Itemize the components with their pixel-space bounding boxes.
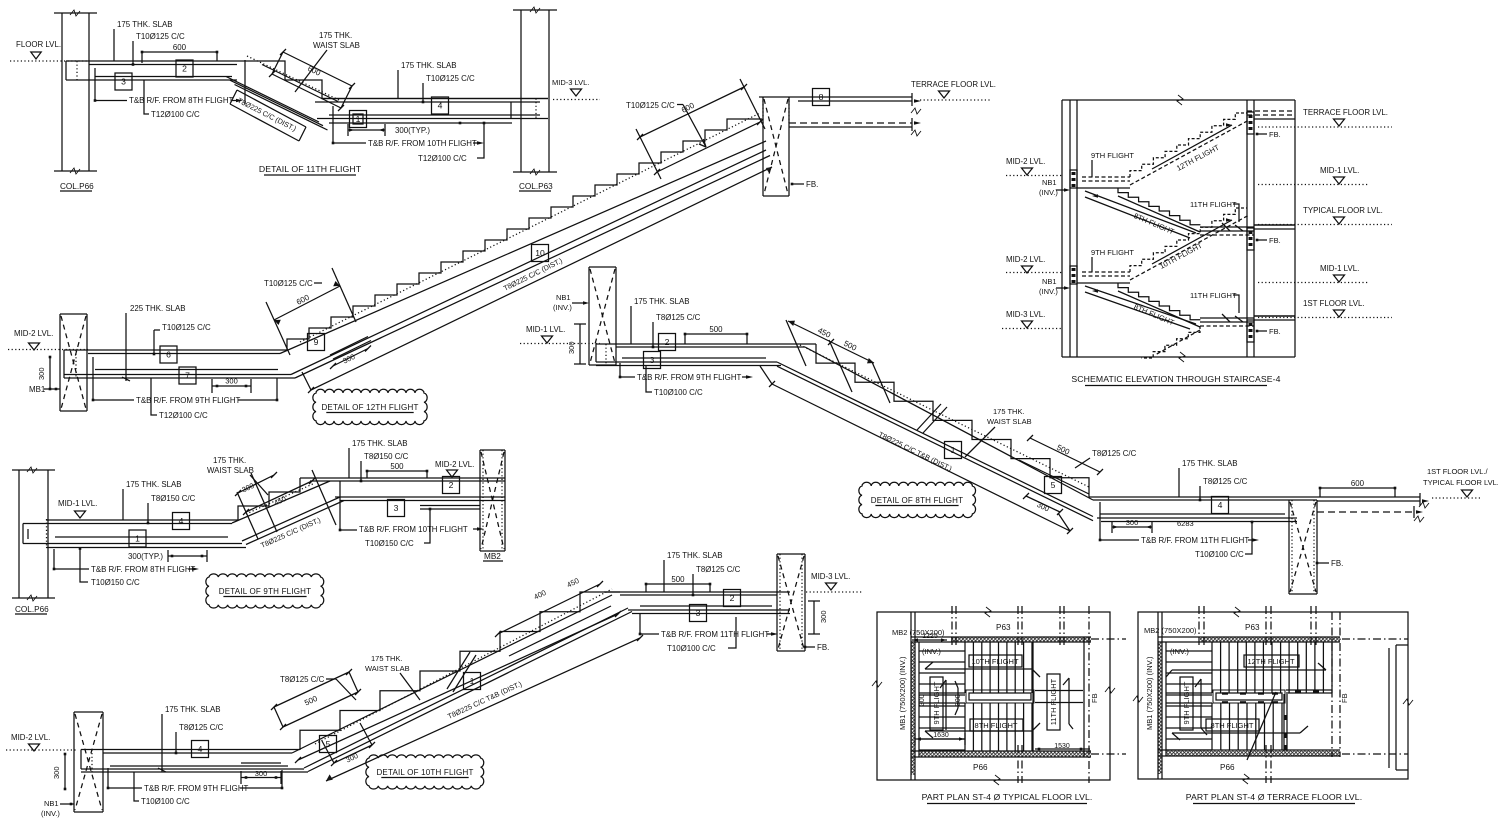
svg-text:T8Ø125 C/C: T8Ø125 C/C (1203, 477, 1248, 486)
label T8@125 C/C (8th) (652, 313, 701, 348)
svg-text:225 THK. SLAB: 225 THK. SLAB (130, 304, 186, 313)
label 12TH FLIGHT boxed (1244, 655, 1299, 667)
svg-text:MID-2 LVL.: MID-2 LVL. (11, 733, 50, 742)
svg-text:FLOOR LVL.: FLOOR LVL. (16, 40, 61, 49)
level MID-3 LVL. left (elevation) (1002, 310, 1062, 329)
bar mark box 3 (115, 73, 132, 90)
svg-text:WAIST SLAB: WAIST SLAB (313, 41, 360, 50)
part plan bottom wall band with hatch (911, 751, 1091, 775)
label 175 THK. SLAB with leader (114, 20, 173, 61)
part plan flight treads upper (965, 642, 1032, 693)
svg-text:DETAIL OF 11TH FLIGHT: DETAIL OF 11TH FLIGHT (259, 164, 362, 174)
part plan left flight treads (1166, 651, 1212, 750)
lower landing slab 8th flight (1089, 497, 1420, 522)
part plan top wall band with hatch (1158, 637, 1340, 642)
label MB2 (750X200) terrace (1144, 626, 1197, 635)
svg-text:175 THK. SLAB: 175 THK. SLAB (126, 480, 182, 489)
rotated dim 450 (9th diag) (243, 470, 336, 525)
svg-text:300: 300 (37, 367, 46, 380)
svg-text:2: 2 (665, 337, 670, 347)
svg-text:175 THK. SLAB: 175 THK. SLAB (401, 61, 457, 70)
label T8@125 C/C (10th) (175, 723, 224, 754)
level marker FLOOR LVL. (10, 40, 89, 61)
stair steps 10th flight (300, 592, 620, 750)
label T&B R/F. FROM 8TH FLIGHT (94, 68, 243, 105)
svg-text:300: 300 (255, 769, 268, 778)
svg-text:T&B R/F. FROM 11TH FLIGHT: T&B R/F. FROM 11TH FLIGHT (661, 630, 769, 639)
svg-text:8TH FLIGHT: 8TH FLIGHT (1211, 721, 1254, 730)
svg-text:T12Ø100 C/C: T12Ø100 C/C (151, 110, 200, 119)
waist slab diagonal 10th flight (292, 589, 632, 772)
rotated label T8@225 C/C (DIST.) 11th (236, 96, 298, 133)
stair steps 9th flight (238, 478, 300, 520)
svg-text:175 THK. SLAB: 175 THK. SLAB (352, 439, 408, 448)
label T12@100 C/C (12th) (151, 378, 208, 420)
svg-text:DETAIL OF 12TH FLIGHT: DETAIL OF 12TH FLIGHT (321, 403, 418, 412)
part plan central landing strip (1213, 690, 1285, 703)
label T10@150 C/C (9th) (79, 547, 140, 587)
svg-text:T&B R/F. FROM 8TH FLIGHT: T&B R/F. FROM 8TH FLIGHT (91, 565, 196, 574)
bar mark box 1 (8th) (945, 442, 962, 459)
label T10@125 C/C with leader (132, 32, 185, 66)
label T10@125 C/C (12th top) (626, 101, 706, 147)
svg-text:6: 6 (166, 350, 171, 360)
part plan left wall hatch (912, 642, 915, 757)
svg-text:T8Ø125 C/C: T8Ø125 C/C (179, 723, 224, 732)
rotated dims 400 450 (10th top) (495, 576, 611, 656)
level MID-1 LVL. upper (elevation) (1258, 166, 1368, 185)
svg-text:COL.P66: COL.P66 (15, 605, 49, 614)
svg-text:175 THK.: 175 THK. (993, 407, 1025, 416)
landing slab 12th flight (64, 350, 295, 378)
label MB2 (750X200) typical (892, 628, 945, 637)
svg-text:7: 7 (185, 371, 190, 381)
bar mark box 3 (10th) (690, 605, 707, 622)
svg-text:WAIST SLAB: WAIST SLAB (987, 417, 1032, 426)
label 8TH FLIGHT boxed typical (970, 719, 1023, 731)
svg-text:MID-2 LVL.: MID-2 LVL. (14, 329, 53, 338)
svg-text:MB1 (750X200) (INV.): MB1 (750X200) (INV.) (1145, 656, 1154, 730)
label T8@125 C/C (8th mid) (1075, 449, 1137, 468)
waist slab diagonal 12th flight (280, 113, 770, 378)
label 175 THK. SLAB (right) (398, 61, 457, 99)
bar mark box 3 (8th) (644, 352, 661, 369)
label T&B R/F. FROM 9TH FLIGHT (12th) (92, 357, 279, 405)
svg-text:9TH FLIGHT: 9TH FLIGHT (1182, 681, 1191, 724)
svg-text:9TH FLIGHT: 9TH FLIGHT (1091, 248, 1134, 257)
dim 1530 typical (1035, 743, 1090, 750)
svg-text:WAIST SLAB: WAIST SLAB (207, 466, 254, 475)
dim 500 (9th upper) (366, 462, 429, 478)
svg-text:300: 300 (52, 766, 61, 779)
label 175 THK. SLAB (9th) (123, 480, 182, 520)
title cloud DETAIL OF 12TH FLIGHT (313, 389, 427, 424)
svg-text:T8Ø125 C/C: T8Ø125 C/C (696, 565, 741, 574)
part plan mid landing edges (919, 693, 965, 703)
bar mark box 5 (8th) (1045, 477, 1062, 494)
svg-text:MID-3 LVL.: MID-3 LVL. (1006, 310, 1045, 319)
level 1ST FLOOR LVL. (elevation) (1258, 299, 1392, 318)
label T&B R/F. FROM 10TH FLIGHT (332, 106, 484, 148)
svg-text:1ST FLOOR LVL./: 1ST FLOOR LVL./ (1427, 467, 1488, 476)
rotated dim 500 (8th right) (1019, 435, 1103, 494)
svg-text:1: 1 (951, 445, 956, 455)
label 175 THK. SLAB (10th right) (664, 551, 723, 592)
dim 300 right (10th) (808, 601, 828, 634)
long dist dim line 12th flight (302, 167, 772, 393)
svg-text:MID-1 LVL.: MID-1 LVL. (1320, 264, 1359, 273)
level marker 1ST FLOOR LVL / TYPICAL FLOOR LVL (1423, 467, 1498, 498)
bar mark box 6 (160, 346, 177, 363)
label T10@100 C/C (10th) (134, 772, 190, 806)
svg-text:MID-1 LVL.: MID-1 LVL. (1320, 166, 1359, 175)
svg-text:9TH FLIGHT: 9TH FLIGHT (1091, 151, 1134, 160)
label T10@125 C/C (right) (422, 74, 475, 103)
rotated label T8@225 C/C (DIST.) 9th (259, 515, 322, 550)
bar mark box 7 (179, 367, 196, 384)
svg-text:T8Ø150 C/C: T8Ø150 C/C (151, 494, 196, 503)
terrace landing slab (elevation) (1247, 111, 1295, 119)
svg-text:1225: 1225 (922, 633, 938, 640)
label FB. (8th) (1316, 559, 1344, 568)
terrace plan FB wall (1332, 612, 1340, 757)
svg-text:4: 4 (438, 101, 443, 111)
dim 300 (12th landing) (212, 377, 251, 394)
svg-text:3: 3 (121, 77, 126, 87)
svg-text:T&B R/F. FROM 9TH FLIGHT: T&B R/F. FROM 9TH FLIGHT (637, 373, 742, 382)
NB1 beam marks left wall (1070, 170, 1077, 284)
svg-text:8: 8 (819, 92, 824, 102)
rotated dim 300 (8th diag) (1023, 493, 1063, 515)
flight direction arrows typical (925, 662, 1073, 738)
terrace landing slab (12th flight) (759, 93, 921, 136)
bar mark box 4 (9th) (173, 513, 190, 530)
svg-text:MID-1 LVL.: MID-1 LVL. (526, 325, 565, 334)
label T&B R/F. FROM 10TH FLIGHT (9th) (339, 481, 484, 534)
waist slab diagonal 11th flight (226, 56, 339, 141)
label (INV.) typical (922, 647, 941, 656)
svg-text:(INV.): (INV.) (553, 303, 572, 312)
part plan outer frame (1133, 607, 1413, 784)
label 175 THK. WAIST SLAB (9th) (207, 456, 268, 495)
column MB2 (480, 450, 505, 561)
label P63 typical (996, 623, 1011, 632)
svg-text:FB.: FB. (817, 643, 829, 652)
svg-text:NB1: NB1 (1042, 277, 1057, 286)
rotated dim 600 waist 11th flight (269, 49, 355, 111)
lower landing slab 9th flight (23, 519, 246, 548)
svg-text:3: 3 (650, 355, 655, 365)
svg-text:300: 300 (225, 377, 238, 386)
svg-text:MID-2 LVL.: MID-2 LVL. (435, 460, 474, 469)
label T10@125 C/C lower (12th flight) (264, 279, 322, 288)
rotated dim 500 (10th diag) (271, 669, 361, 730)
label FB. (12th) (791, 180, 819, 189)
column FB (8th) (1289, 500, 1317, 594)
svg-text:T10Ø125 C/C: T10Ø125 C/C (136, 32, 185, 41)
svg-text:TYPICAL FLOOR LVL.: TYPICAL FLOOR LVL. (1303, 206, 1383, 215)
elevation left wall (1070, 100, 1077, 357)
level marker TERRACE FLOOR LVL. (911, 80, 996, 100)
svg-text:TERRACE FLOOR LVL.: TERRACE FLOOR LVL. (1303, 108, 1388, 117)
part plan top wall band with hatch (911, 637, 1091, 642)
svg-text:T8Ø125 C/C: T8Ø125 C/C (280, 675, 325, 684)
svg-text:11TH FLIGHT: 11TH FLIGHT (1049, 678, 1058, 725)
label 12TH FLIGHT rotated (1175, 143, 1221, 173)
part plan mid landing edges (1166, 693, 1212, 703)
waist slab diagonal 9th flight (232, 481, 344, 545)
svg-text:FB.: FB. (1269, 236, 1281, 245)
rotated label T8@225 C/C T&B (DIST.) 8th (877, 430, 953, 473)
svg-text:COL.P66: COL.P66 (60, 182, 94, 191)
svg-text:4: 4 (179, 516, 184, 526)
bar mark box 3 (9th) (388, 500, 405, 517)
bar mark box 2 (176, 60, 193, 77)
bar mark box 1 (350, 111, 367, 128)
elevation right wall (1247, 100, 1254, 357)
label T10@125 C/C (12th left) (153, 323, 211, 355)
label T8@125 C/C (8th right) (1199, 477, 1248, 501)
svg-text:300: 300 (1126, 518, 1139, 527)
elevation upper storey stairs (1077, 113, 1254, 238)
svg-text:WAIST SLAB: WAIST SLAB (365, 664, 410, 673)
svg-text:600: 600 (1351, 479, 1365, 488)
rotated dim 600 (12th top) (636, 79, 765, 179)
svg-text:FB: FB (1340, 693, 1349, 703)
svg-text:175 THK. SLAB: 175 THK. SLAB (1182, 459, 1238, 468)
label T10@100 C/C (10th right) (667, 617, 736, 653)
elevation lower storey stairs (1077, 208, 1254, 329)
svg-text:MB2 (750X200): MB2 (750X200) (1144, 626, 1197, 635)
dim 300 left (10th) (52, 753, 66, 791)
label MB1 (750X200)(INV.) typical (898, 656, 907, 730)
label (INV.) terrace (1170, 647, 1189, 656)
dim 300 left (12th flight) (37, 356, 51, 391)
title cloud DETAIL OF 10TH FLIGHT (366, 755, 484, 789)
label T8@125 C/C (10th mid) (280, 675, 356, 700)
svg-text:T&B R/F. FROM 9TH FLIGHT: T&B R/F. FROM 9TH FLIGHT (136, 396, 241, 405)
FB beam marks right wall (1247, 112, 1254, 342)
dim 1225 typical (912, 633, 947, 642)
svg-text:500: 500 (390, 462, 404, 471)
svg-text:10TH FLIGHT: 10TH FLIGHT (971, 657, 1019, 666)
svg-text:T8Ø150 C/C: T8Ø150 C/C (364, 452, 409, 461)
label P63 terrace (1245, 623, 1260, 632)
svg-text:(INV.): (INV.) (41, 809, 60, 818)
detail of 12th flight (0, 0, 1, 1)
label 11TH FLIGHT boxed vertical (1047, 674, 1060, 730)
svg-text:T10Ø100 C/C: T10Ø100 C/C (141, 797, 190, 806)
upper landing slab 10th flight (604, 592, 790, 614)
svg-text:FB.: FB. (806, 180, 818, 189)
svg-text:MID-2 LVL.: MID-2 LVL. (1006, 157, 1045, 166)
svg-text:1630: 1630 (933, 732, 949, 739)
svg-text:T&B R/F. FROM 8TH FLIGHT: T&B R/F. FROM 8TH FLIGHT (129, 96, 234, 105)
svg-text:P63: P63 (996, 623, 1011, 632)
part plan ST-4 at typical floor lvl (0, 0, 1, 1)
dim 500 (8th left) (684, 325, 749, 344)
rotated dims 450 500 (8th top) (786, 320, 890, 403)
level marker MID-3 LVL. (11th flight) (552, 78, 600, 100)
title PART PLAN ST-4 @ TYPICAL FLOOR LVL. (922, 792, 1093, 804)
detail of 9th flight (0, 0, 1, 1)
svg-text:NB1: NB1 (44, 799, 59, 808)
svg-text:300: 300 (567, 341, 576, 354)
labels FB. (elevation) (1256, 130, 1281, 336)
label NB1 (INV.) upper (elevation) (1039, 178, 1070, 197)
svg-text:(INV.): (INV.) (922, 647, 941, 656)
label 11TH FLIGHT (lower) (1190, 291, 1243, 322)
level TYPICAL FLOOR LVL. (elevation) (1258, 206, 1392, 225)
label 175 THK. SLAB (8th) (631, 297, 690, 344)
part plan left wall hatch (1159, 642, 1162, 756)
label T&B R/F. FROM 9TH FLIGHT (10th) (107, 768, 284, 793)
partial flight at bottom (elevation) (1142, 326, 1201, 358)
label 9TH FLIGHT boxed vertical typical (930, 677, 943, 730)
label 175 THK. SLAB (10th) (158, 705, 221, 772)
part plan flight treads lower (1212, 703, 1282, 750)
label T8@125 C/C (10th right) (692, 565, 741, 596)
svg-text:T10Ø100 C/C: T10Ø100 C/C (1195, 550, 1244, 559)
break marks across 8th flight (917, 404, 947, 433)
dim 300(TYP.) (9th) (128, 550, 207, 562)
svg-text:3: 3 (696, 608, 701, 618)
label P66 terrace (1220, 763, 1235, 772)
label T10@100 C/C (8th) (646, 366, 703, 397)
svg-text:TERRACE FLOOR LVL.: TERRACE FLOOR LVL. (911, 80, 996, 89)
svg-text:T12Ø100 C/C: T12Ø100 C/C (159, 411, 208, 420)
title cloud DETAIL OF 8TH FLIGHT (859, 482, 976, 517)
label FB vertical typical (1090, 693, 1099, 703)
svg-text:175 THK. SLAB: 175 THK. SLAB (667, 551, 723, 560)
label T&B R/F. FROM 9TH FLIGHT (8th) (619, 363, 753, 382)
svg-text:8TH FLIGHT: 8TH FLIGHT (975, 721, 1018, 730)
svg-text:1: 1 (356, 114, 361, 124)
svg-text:T10Ø125 C/C: T10Ø125 C/C (626, 101, 675, 110)
label 8TH FLIGHT rotated (lower) (1132, 302, 1175, 327)
stair steps 8th flight (816, 344, 1089, 497)
column FB (10th flight) (777, 554, 805, 651)
label 175 THK. WAIST SLAB (295, 31, 360, 92)
svg-text:1: 1 (135, 534, 140, 544)
svg-text:NB1: NB1 (556, 293, 571, 302)
detail of 8th flight (0, 0, 1, 1)
svg-text:T8Ø125 C/C: T8Ø125 C/C (1092, 449, 1137, 458)
label T12@100 C/C (right) (418, 122, 485, 163)
label T8@150 C/C (9th) (147, 494, 196, 524)
bar mark box 9 (12th) (308, 334, 325, 351)
terrace plan L-wall and marks (1284, 690, 1332, 751)
part plan left wall (1158, 612, 1166, 779)
lower landing slab 11th flight (315, 99, 548, 124)
label T&B R/F. FROM 11TH FLIGHT (8th) (1099, 502, 1259, 545)
label 175 THK. WAIST SLAB (8th) (965, 407, 1032, 457)
level MID-2 LVL. lower left (elevation) (1006, 255, 1062, 273)
bar mark box 10 (12th) (532, 245, 549, 262)
label 225 THK. SLAB (122, 304, 186, 381)
bar mark box 4 (8th) (1212, 497, 1229, 514)
typical floor slab (elevation) (1254, 225, 1295, 229)
label FB. (10th) (804, 643, 830, 652)
long dist dim line 10th flight (295, 611, 643, 781)
elevation outer frame (1062, 95, 1295, 362)
svg-text:2: 2 (182, 64, 187, 74)
label 8TH FLIGHT boxed terrace (1206, 719, 1259, 731)
svg-text:FB.: FB. (1269, 327, 1281, 336)
column COL.P63 (513, 7, 557, 191)
svg-text:T8Ø125 C/C: T8Ø125 C/C (656, 313, 701, 322)
rotated label T8@225 C/C T&B (DIST.) 10th (446, 679, 523, 721)
svg-text:T10Ø125 C/C: T10Ø125 C/C (426, 74, 475, 83)
dims 300 typical plan (919, 681, 962, 715)
label 9TH FLIGHT (lower) (1091, 248, 1134, 272)
svg-text:FB.: FB. (1331, 559, 1343, 568)
svg-text:PART PLAN ST-4 Ø TYPICAL FLOOR: PART PLAN ST-4 Ø TYPICAL FLOOR LVL. (922, 792, 1093, 802)
rotated dim 300 (10th diag) (322, 723, 375, 766)
part plan left flight treads (919, 651, 965, 750)
svg-text:175 THK.: 175 THK. (319, 31, 352, 40)
svg-text:175 THK. SLAB: 175 THK. SLAB (634, 297, 690, 306)
svg-text:T10Ø100 C/C: T10Ø100 C/C (667, 644, 716, 653)
label 175 THK. SLAB (8th right) (1179, 459, 1238, 497)
part plan flight treads lower (965, 703, 1032, 751)
svg-text:11TH FLIGHT: 11TH FLIGHT (1190, 200, 1237, 209)
svg-text:P66: P66 (973, 763, 988, 772)
rotated dim 300 (12th diag) (330, 346, 371, 370)
part plan bottom wall band with hatch (1158, 750, 1340, 774)
label 8TH FLIGHT rotated (upper) (1132, 211, 1175, 236)
part plan left wall (911, 612, 919, 780)
svg-text:T10Ø125 C/C: T10Ø125 C/C (264, 279, 313, 288)
bar mark box 5 (10th) (320, 736, 337, 753)
svg-text:MID-2 LVL.: MID-2 LVL. (1006, 255, 1045, 264)
column FB (12th flight terrace) (763, 97, 789, 196)
part plan central landing strip (966, 690, 1034, 703)
break marks across 10th flight (447, 652, 476, 692)
bar mark box 4 (432, 97, 449, 114)
svg-text:2: 2 (730, 593, 735, 603)
svg-text:9: 9 (314, 337, 319, 347)
svg-text:FB: FB (1090, 693, 1099, 703)
svg-text:T10Ø150 C/C: T10Ø150 C/C (365, 539, 414, 548)
label P66 typical (973, 763, 988, 772)
bar mark box 2 (9th) (443, 477, 460, 494)
level marker MID-3 LVL. (10th) (806, 572, 862, 592)
svg-text:300: 300 (919, 694, 926, 706)
label NB1 (INV.) lower (elevation) (1039, 277, 1070, 296)
svg-text:300: 300 (819, 610, 828, 623)
svg-text:175 THK. SLAB: 175 THK. SLAB (165, 705, 221, 714)
svg-text:5: 5 (1051, 480, 1056, 490)
title PART PLAN ST-4 @ TERRACE FLOOR LVL. (1186, 792, 1363, 804)
label T&B R/F. FROM 8TH FLIGHT (9th) (53, 549, 199, 574)
schematic elevation through staircase-4 (0, 0, 1, 1)
part plan ST-4 at terrace floor lvl (0, 0, 1, 1)
dim 300 (8th landing) (1112, 518, 1152, 533)
svg-text:6283: 6283 (1177, 519, 1194, 528)
label 9TH FLIGHT boxed vertical terrace (1180, 677, 1193, 730)
level marker MID-2 LVL. (12th flight) (8, 329, 88, 350)
title SCHEMATIC ELEVATION THROUGH STAIRCASE-4 (1071, 374, 1280, 386)
column COL.P66 (54, 10, 97, 191)
bar mark box 2 (8th) (659, 334, 676, 351)
level marker MID-2 LVL. (10th) (6, 733, 78, 751)
bar mark box 1 (9th) (129, 530, 146, 547)
svg-text:T&B R/F. FROM 11TH FLIGHT: T&B R/F. FROM 11TH FLIGHT (1141, 536, 1249, 545)
svg-text:T&B R/F. FROM 9TH FLIGHT: T&B R/F. FROM 9TH FLIGHT (144, 784, 249, 793)
upper landing slab 11th flight (66, 61, 548, 99)
label 175 THK. WAIST SLAB (10th) (365, 654, 420, 700)
